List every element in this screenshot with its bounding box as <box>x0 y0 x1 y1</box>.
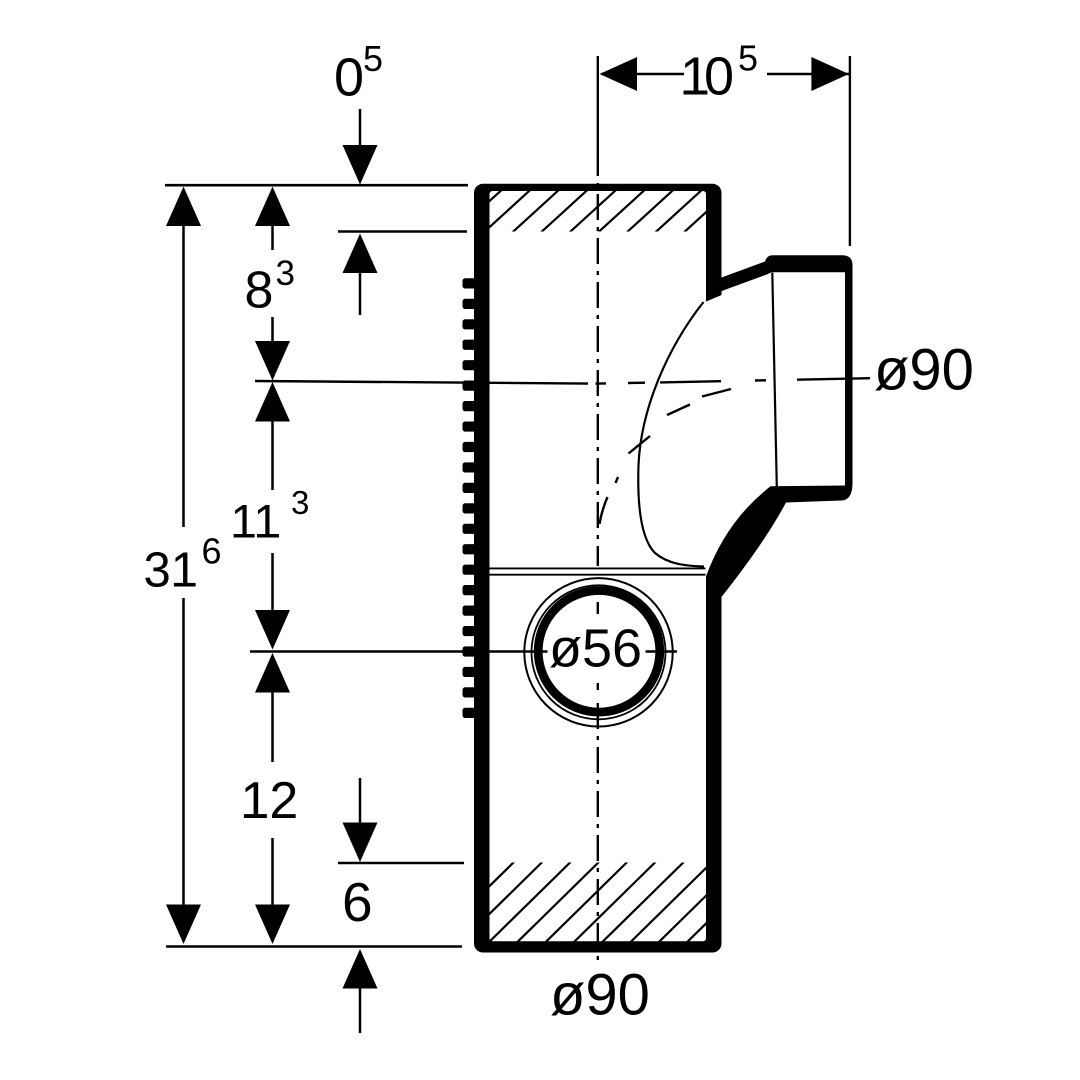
branch interior white (under black ring) <box>705 273 844 577</box>
svg-text:31: 31 <box>144 544 199 598</box>
12 line upper <box>271 667 274 762</box>
centerline dot below text <box>597 683 599 690</box>
svg-text:8: 8 <box>245 262 274 320</box>
curved axis dash 2 <box>667 405 690 416</box>
svg-text:10: 10 <box>680 47 732 107</box>
arrowhead 31-6 top <box>166 187 201 227</box>
vertical centerline lower <box>597 703 599 962</box>
serration teeth on left pipe wall <box>463 278 479 718</box>
12 line lower <box>271 838 274 906</box>
arrowhead 10-5 right <box>811 57 849 91</box>
serif foot of first 1 in 11 <box>234 534 253 537</box>
svg-text:5: 5 <box>363 38 383 79</box>
svg-text:12: 12 <box>241 772 299 830</box>
vertical centerline upper <box>597 150 599 566</box>
31-6 line lower <box>182 598 185 935</box>
0-5 lower reference line <box>338 230 467 232</box>
hatching bottom (section cut) <box>432 862 797 943</box>
side outlet circle chamfer thin <box>532 585 666 719</box>
side outlet circle ø56 outer thin <box>524 578 672 726</box>
svg-text:6: 6 <box>202 531 222 572</box>
svg-text:6: 6 <box>342 871 373 933</box>
joint line lower <box>490 574 706 576</box>
arrowhead 6 up <box>343 949 378 989</box>
side outlet circle thick bore <box>538 591 660 713</box>
6 reference line <box>338 862 464 864</box>
saddle curve (branch inner contour) <box>638 302 704 567</box>
main pipe body outer outline <box>474 184 722 953</box>
o56 leader right <box>646 650 678 652</box>
serif foot of 1 in 31 <box>174 583 194 587</box>
branch axis dash 3 <box>660 381 721 382</box>
11-3 line lower <box>271 553 274 612</box>
arrowhead 10-5 left <box>600 57 638 91</box>
svg-text:0: 0 <box>334 48 364 108</box>
ext line right of 10-5 <box>849 56 851 246</box>
centerline dash at circle <box>597 602 599 614</box>
arrowhead 8-3 bottom <box>255 341 290 381</box>
socket shoulder <box>772 273 777 488</box>
joint line upper <box>490 567 706 569</box>
svg-text:ø90: ø90 <box>550 963 650 1028</box>
curved axis dash 3 <box>629 436 651 454</box>
arrowhead 31-6 bottom <box>166 905 201 945</box>
hatching top (section cut) <box>455 190 759 233</box>
arrowhead 0-5 down <box>343 145 378 185</box>
ext line left of 10-5 <box>597 56 599 150</box>
o56 leader left <box>250 650 548 652</box>
svg-text:3: 3 <box>276 254 295 293</box>
branch axis dash 1 <box>596 382 607 385</box>
arrowhead 12 bottom <box>255 905 290 945</box>
white halo behind o56 text <box>550 627 644 668</box>
arrowhead 8-3 top <box>255 187 290 227</box>
curved axis dot <box>616 477 619 483</box>
serif foot of 1 in 10 <box>684 91 706 95</box>
6 arrow stem upper <box>359 778 362 825</box>
arrowhead 11-3 top <box>255 382 290 422</box>
serif foot of 1 in 12 <box>244 814 265 818</box>
branch axis dot <box>755 379 766 382</box>
svg-text:5: 5 <box>738 38 758 79</box>
serif foot of second 1 in 11 <box>260 534 279 537</box>
svg-text:ø90: ø90 <box>874 338 974 403</box>
svg-text:11: 11 <box>231 496 280 549</box>
main pipe body inner white <box>490 191 707 941</box>
branch outlet and socket, black outline <box>706 255 853 597</box>
10-5 dim line right <box>767 73 849 76</box>
10-5 dim line left <box>602 73 685 76</box>
31-6 line upper <box>182 200 185 527</box>
0-5 arrow stem upper <box>359 109 362 147</box>
svg-text:3: 3 <box>291 484 309 521</box>
6 arrow stem lower <box>359 987 362 1033</box>
8-3 line upper <box>271 200 274 250</box>
arrowhead 6 down <box>343 823 378 863</box>
curved axis dash 1 <box>702 389 731 397</box>
branch axis leader <box>255 381 588 384</box>
8-3 line lower <box>271 317 274 345</box>
branch axis dash 4 <box>797 378 870 380</box>
11-3 line upper <box>271 400 274 490</box>
svg-text:ø56: ø56 <box>549 619 642 679</box>
top reference line <box>165 184 468 187</box>
arrowhead 12 top <box>255 653 290 693</box>
branch axis dash 2 <box>628 382 645 385</box>
arrowhead below 0-5 line <box>343 234 378 274</box>
arrowhead 11-3 bottom <box>255 610 290 650</box>
0-5 arrow stem lower <box>359 272 362 315</box>
bottom reference line <box>166 945 462 948</box>
